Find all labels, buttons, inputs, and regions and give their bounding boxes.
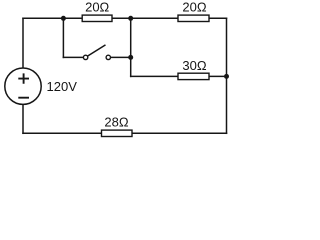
wire: bottom side of outer loop	[23, 132, 227, 134]
resistor R4 28 ohm (bottom)	[102, 130, 133, 136]
wire: 30 ohm branch horizontal	[131, 75, 227, 77]
switch S1 (open blade)	[83, 45, 110, 60]
svg-text:30Ω: 30Ω	[182, 58, 206, 73]
wire: switch left lead	[63, 56, 83, 58]
svg-text:28Ω: 28Ω	[104, 114, 128, 129]
wire: top side of outer loop	[23, 17, 227, 19]
junction: 30 ohm branch / right side	[224, 74, 229, 79]
wire: left side of outer loop	[22, 18, 24, 133]
svg-text:120V: 120V	[47, 79, 78, 94]
junction: top wire / switch stub	[61, 16, 66, 21]
wire: middle vertical branch	[130, 18, 132, 76]
resistor R2 20 ohm (top right)	[178, 15, 209, 21]
svg-text:20Ω: 20Ω	[182, 0, 206, 15]
wire: switch stub vertical	[62, 18, 64, 57]
junction: switch lead / middle vertical	[128, 55, 133, 60]
resistor R1 20 ohm (top left)	[82, 15, 112, 21]
junction: top wire / middle vertical	[128, 16, 133, 21]
wire: switch right lead	[111, 56, 131, 58]
wire: right side of outer loop	[226, 18, 228, 133]
resistor R3 30 ohm (middle branch)	[178, 73, 209, 79]
svg-text:20Ω: 20Ω	[85, 0, 109, 15]
voltage source V1 (120V)	[5, 68, 41, 104]
